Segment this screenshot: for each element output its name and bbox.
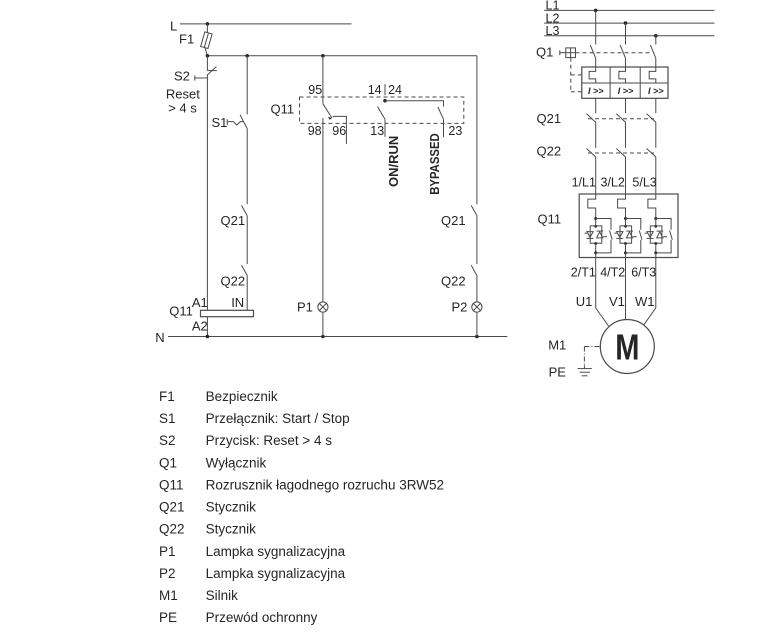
wire 96 stub xyxy=(333,116,347,143)
svg-text:96: 96 xyxy=(332,124,346,138)
junction L1 tap xyxy=(594,9,598,13)
thermal overload element phase 3 xyxy=(649,67,656,83)
svg-text:Bezpiecznik: Bezpiecznik xyxy=(206,389,278,404)
svg-text:1/L1: 1/L1 xyxy=(572,175,596,189)
wire bus to S1 xyxy=(246,56,248,115)
wire bus right branch to Q21 xyxy=(476,56,478,204)
svg-text:F1: F1 xyxy=(179,31,194,46)
changeover contact 95-98-96 blade xyxy=(323,104,332,120)
ground PE xyxy=(578,365,592,376)
svg-text:Q11: Q11 xyxy=(169,304,193,319)
svg-text:I >>: I >> xyxy=(648,86,664,96)
junction control bus 95 branch xyxy=(321,54,325,58)
svg-text:I >>: I >> xyxy=(588,86,604,96)
dashed trip linkage vertical xyxy=(570,58,572,92)
svg-text:Q21: Q21 xyxy=(221,213,246,228)
dash-dot PE link vertical xyxy=(583,347,585,366)
svg-text:S2: S2 xyxy=(174,68,190,83)
wire Q22 to Q11 pole2 xyxy=(625,157,627,194)
svg-text:Q21: Q21 xyxy=(159,500,185,515)
wire L2 to Q1 xyxy=(625,23,627,44)
svg-text:3/L2: 3/L2 xyxy=(601,175,625,189)
junction phase 1 box bottom xyxy=(594,242,597,245)
soft starter phase 2 input jog xyxy=(618,194,626,219)
wire L bus xyxy=(180,23,352,25)
wire Q22 to Q11 pole1 xyxy=(595,157,597,194)
junction control bus S1 branch xyxy=(245,54,249,58)
wire phase3 to thyristor box xyxy=(655,219,657,227)
fuse F1 xyxy=(201,32,212,49)
wire L1 xyxy=(544,9,714,11)
junction on L bus xyxy=(206,22,210,26)
svg-text:PE: PE xyxy=(549,365,567,380)
svg-text:PE: PE xyxy=(159,610,177,625)
svg-text:23: 23 xyxy=(448,124,462,138)
svg-text:Q21: Q21 xyxy=(441,213,466,228)
junction phase 3 bottom xyxy=(654,251,657,254)
junction phase 2 top xyxy=(624,217,627,220)
svg-text:Q1: Q1 xyxy=(536,44,553,59)
contactor Q22 pole 1 blade xyxy=(587,149,596,157)
svg-text:Q1: Q1 xyxy=(159,455,177,470)
svg-text:M1: M1 xyxy=(159,588,178,603)
svg-text:Rozrusznik łagodnego rozruchu: Rozrusznik łagodnego rozruchu 3RW52 xyxy=(206,478,444,493)
svg-text:98: 98 xyxy=(308,124,322,138)
svg-text:Q11: Q11 xyxy=(538,211,562,226)
svg-text:BYPASSED: BYPASSED xyxy=(427,133,442,195)
svg-text:A1: A1 xyxy=(192,295,208,310)
dashed box Q11 aux contacts xyxy=(300,97,464,123)
wire S1 to Q21 xyxy=(246,129,248,205)
wire Q21 to Q22 control xyxy=(246,216,248,264)
contact Q21 control xyxy=(242,205,248,215)
dashed linkage Q21 power xyxy=(588,118,654,120)
svg-text:P1: P1 xyxy=(159,544,176,559)
junction phase 1 bottom xyxy=(594,251,597,254)
switch S1 xyxy=(227,115,247,129)
junction phase 1 box top xyxy=(594,225,597,228)
junction node 14 xyxy=(383,99,387,103)
breaker Q1 trip block xyxy=(582,67,668,98)
breaker Q1 pole 2 blade xyxy=(620,45,625,58)
svg-text:ON/RUN: ON/RUN xyxy=(386,136,401,187)
wire A2 to N xyxy=(206,317,208,337)
wire L3 to Q1 xyxy=(655,36,657,45)
contact Q21 right xyxy=(471,205,477,215)
wire trip block to Q21 pole2 xyxy=(625,98,627,113)
svg-text:U1: U1 xyxy=(576,294,593,309)
svg-text:S1: S1 xyxy=(212,115,228,130)
wire phase1 box to bottom junction xyxy=(595,244,597,253)
wire phase2 out of block xyxy=(625,253,627,320)
svg-text:I >>: I >> xyxy=(618,86,634,96)
wire phase2 to thyristor box xyxy=(625,219,627,227)
wire control bus xyxy=(207,55,477,57)
svg-text:P2: P2 xyxy=(159,566,176,581)
svg-text:24: 24 xyxy=(388,83,402,97)
lamp P1 xyxy=(318,302,328,312)
wire Q21 to Q22 right xyxy=(476,216,478,264)
svg-text:2/T1: 2/T1 xyxy=(571,266,596,280)
dashed trip tick magnetic xyxy=(571,91,582,93)
contactor Q21 pole 2 blade xyxy=(616,114,625,122)
svg-text:> 4 s: > 4 s xyxy=(168,100,197,115)
svg-text:W1: W1 xyxy=(635,294,655,309)
junction phase 3 box top xyxy=(654,225,657,228)
contactor Q21 pole 3 blade xyxy=(647,114,656,122)
wire N bus xyxy=(168,336,507,338)
wire trip block to Q21 pole3 xyxy=(655,98,657,113)
wire Q1 pole1 to trip block xyxy=(595,58,597,67)
svg-text:M1: M1 xyxy=(548,337,566,352)
wire Q1 pole3 to trip block xyxy=(655,58,657,67)
svg-text:Przewód ochronny: Przewód ochronny xyxy=(206,610,318,625)
svg-text:Silnik: Silnik xyxy=(206,588,239,603)
svg-text:Reset: Reset xyxy=(166,86,200,101)
soft starter phase 1 input jog xyxy=(588,194,596,219)
wire 98 to P1 xyxy=(322,118,324,302)
bypass contact phase 2 xyxy=(626,219,643,253)
wire W1 to motor xyxy=(644,308,656,325)
junction phase 3 box bottom xyxy=(654,242,657,245)
svg-text:P1: P1 xyxy=(297,299,313,314)
svg-text:Q22: Q22 xyxy=(537,143,562,158)
svg-text:N: N xyxy=(155,330,164,345)
thermal overload element phase 2 xyxy=(619,67,626,83)
junction phase 2 box bottom xyxy=(624,242,627,245)
svg-text:14: 14 xyxy=(368,83,382,97)
junction L2 tap xyxy=(624,21,628,25)
junction N at P2 xyxy=(475,335,479,339)
wire 14 to 24 link xyxy=(385,101,444,107)
wire 23 stub xyxy=(443,119,445,137)
separator 14|24 xyxy=(384,84,386,95)
svg-text:Lampka sygnalizacyjna: Lampka sygnalizacyjna xyxy=(206,544,346,559)
wire Q22 to Q11 pole3 xyxy=(655,157,657,194)
svg-text:Q22: Q22 xyxy=(441,274,466,289)
junction N at A2 xyxy=(206,335,210,339)
thyristor pair phase 1 xyxy=(585,226,607,243)
wire Q21 to Q22 pole2 xyxy=(625,122,627,148)
contact Q22 right xyxy=(471,265,477,275)
thermal overload element phase 1 xyxy=(589,67,596,83)
wire fuse to control bus xyxy=(205,48,207,56)
wire P2 to N xyxy=(476,312,478,336)
wire Q21 to Q22 pole1 xyxy=(595,122,597,148)
svg-text:M: M xyxy=(615,326,639,367)
contact 13-14 ON/RUN xyxy=(378,107,386,120)
wire L2 xyxy=(544,22,714,24)
wire S2 to A1 xyxy=(206,75,208,310)
wire phase3 box to bottom junction xyxy=(655,244,657,253)
wire phase2 box to bottom junction xyxy=(625,244,627,253)
contact Q22 control xyxy=(242,265,248,275)
breaker Q1 manual operator xyxy=(560,48,576,58)
bypass contact phase 3 xyxy=(656,219,673,253)
wire phase1 to thyristor box xyxy=(595,219,597,227)
junction N at P1 xyxy=(321,335,325,339)
wire 13 stub xyxy=(384,119,386,137)
wire Q22 to P2 xyxy=(476,276,478,302)
dash-dot PE link horizontal xyxy=(584,346,600,348)
contactor Q21 pole 1 blade xyxy=(587,114,596,122)
motor M1 xyxy=(600,320,654,374)
wire phase1 out of block xyxy=(595,253,597,308)
svg-text:Q11: Q11 xyxy=(271,101,295,116)
soft starter phase 3 input jog xyxy=(648,194,656,219)
svg-text:IN: IN xyxy=(231,295,244,310)
svg-text:Przełącznik: Start / Stop: Przełącznik: Start / Stop xyxy=(206,411,350,426)
junction control bus S2 branch xyxy=(206,54,210,58)
svg-text:Q11: Q11 xyxy=(159,478,184,493)
wire bus to contact 95 xyxy=(322,56,324,104)
svg-text:P2: P2 xyxy=(452,299,468,314)
bypass contact phase 1 xyxy=(596,219,613,253)
wire L3 xyxy=(544,35,714,37)
junction phase 3 top xyxy=(654,217,657,220)
svg-text:5/L3: 5/L3 xyxy=(632,175,656,189)
svg-text:95: 95 xyxy=(308,83,322,97)
wire phase3 out of block xyxy=(655,253,657,308)
junction L3 tap xyxy=(654,34,658,38)
pushbutton S2 xyxy=(195,67,217,81)
breaker Q1 pole 3 blade xyxy=(650,45,655,58)
svg-text:Lampka sygnalizacyjna: Lampka sygnalizacyjna xyxy=(206,566,346,581)
wire Q1 pole2 to trip block xyxy=(625,58,627,67)
lamp P2 xyxy=(472,302,482,312)
svg-text:13: 13 xyxy=(370,124,384,138)
thyristor pair phase 2 xyxy=(614,226,636,243)
svg-text:Q21: Q21 xyxy=(537,111,562,126)
wire Q21 to Q22 pole3 xyxy=(655,122,657,148)
wire trip block to Q21 pole1 xyxy=(595,98,597,113)
svg-text:A2: A2 xyxy=(192,318,208,333)
breaker Q1 pole 1 blade xyxy=(590,45,595,58)
soft starter Q11 power block xyxy=(579,194,678,258)
coil Q11 A1/A2 xyxy=(201,310,254,316)
wire Q22 to IN xyxy=(246,276,248,311)
svg-text:Q22: Q22 xyxy=(221,274,246,289)
svg-text:Stycznik: Stycznik xyxy=(206,522,257,537)
contactor Q22 pole 3 blade xyxy=(647,149,656,157)
contact 23-24 BYPASSED xyxy=(438,107,444,119)
contactor Q22 pole 2 blade xyxy=(616,149,625,157)
svg-text:4/T2: 4/T2 xyxy=(600,266,625,280)
wire L to fuse xyxy=(206,24,208,33)
dashed linkage Q22 power xyxy=(588,152,654,154)
dashed linkage Q1 xyxy=(576,52,651,54)
junction phase 1 top xyxy=(594,217,597,220)
svg-text:S2: S2 xyxy=(159,433,176,448)
junction phase 2 bottom xyxy=(624,251,627,254)
svg-text:S1: S1 xyxy=(159,411,176,426)
svg-text:F1: F1 xyxy=(159,389,175,404)
wire P1 to N xyxy=(322,312,324,336)
svg-text:V1: V1 xyxy=(609,294,625,309)
svg-text:Stycznik: Stycznik xyxy=(206,500,257,515)
svg-text:L: L xyxy=(170,19,177,34)
svg-text:Wyłącznik: Wyłącznik xyxy=(206,455,267,470)
junction phase 2 box top xyxy=(624,225,627,228)
wire U1 to motor xyxy=(596,308,609,326)
wire L1 to Q1 xyxy=(595,10,597,44)
svg-text:6/T3: 6/T3 xyxy=(631,266,656,280)
svg-text:Przycisk: Reset > 4 s: Przycisk: Reset > 4 s xyxy=(206,433,333,448)
dashed trip tick thermal xyxy=(571,74,582,76)
svg-text:Q22: Q22 xyxy=(159,522,185,537)
thyristor pair phase 3 xyxy=(645,226,667,243)
wire bus to S2 xyxy=(206,56,208,71)
